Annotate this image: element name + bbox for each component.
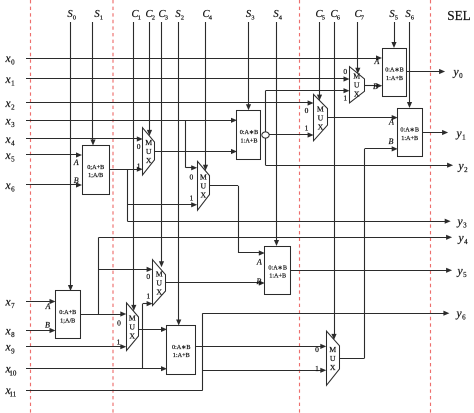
svg-text:1: 1 xyxy=(100,15,103,22)
svg-text:M: M xyxy=(353,71,360,80)
svg-text:5: 5 xyxy=(395,15,398,22)
svg-text:1;A/B: 1;A/B xyxy=(88,172,103,179)
multiplexer M2 xyxy=(198,161,210,210)
control signal label C1 xyxy=(131,9,141,22)
svg-text:5: 5 xyxy=(11,156,15,164)
svg-text:1: 1 xyxy=(146,292,150,301)
svg-text:0:A∗B: 0:A∗B xyxy=(240,129,259,136)
output label y1 xyxy=(455,128,466,142)
wire x9 to M4 input 1 xyxy=(26,344,126,349)
svg-text:1: 1 xyxy=(315,364,319,373)
input label x6 xyxy=(4,180,15,194)
multiplexer M3 xyxy=(153,260,166,306)
input label x9 xyxy=(4,342,15,356)
control line C2 (select of MUX M1) xyxy=(147,22,152,136)
output label y0 xyxy=(452,67,463,81)
control signal label S5 xyxy=(389,9,398,22)
control signal label C4 xyxy=(202,9,212,22)
input label x2 xyxy=(4,98,15,112)
ALU U3 (0:A*B / 1:A+B) xyxy=(237,111,261,160)
net U1 output: to M1 input 1, branch to M2 input 1 and output y3 xyxy=(110,167,451,224)
wire M2 output to U4 pin A xyxy=(210,186,265,256)
svg-text:B: B xyxy=(256,277,261,286)
svg-text:A: A xyxy=(373,57,379,66)
control line S1 (select of U1) xyxy=(90,22,95,146)
svg-text:1;A/B: 1;A/B xyxy=(60,317,75,324)
svg-text:7: 7 xyxy=(11,302,15,310)
wire M6 output to U7 pin A xyxy=(327,115,398,120)
svg-text:9: 9 xyxy=(11,347,15,355)
svg-text:11: 11 xyxy=(9,391,16,399)
wire x10 to U5 pin B, branch up to M3 input 1 xyxy=(26,301,167,371)
control line C7 (select of MUX M7) xyxy=(355,22,360,74)
svg-text:B: B xyxy=(45,321,50,330)
control line S4 (select of U4) xyxy=(274,22,279,246)
control line S6 (select of U7) xyxy=(407,22,412,108)
wire M4 output to U5 pin A xyxy=(138,327,167,332)
wire x11 up to output y6 with branch to M5 input 1 xyxy=(26,311,449,391)
ALU U1 (0:A+B / 1:A/B) xyxy=(73,146,110,195)
svg-text:0: 0 xyxy=(459,72,463,80)
control line C1 (select of MUX M4) xyxy=(131,22,136,311)
svg-text:M: M xyxy=(317,104,324,113)
svg-text:2: 2 xyxy=(181,15,184,22)
ALU U4 (0:A*B / 1:A+B) xyxy=(256,247,291,295)
control signal label S2 xyxy=(175,9,184,22)
ALU U2 (0:A+B / 1:A/B) xyxy=(45,291,81,339)
svg-text:0: 0 xyxy=(11,59,15,67)
svg-text:M: M xyxy=(129,313,136,322)
control signal label S0 xyxy=(67,9,76,22)
input label x1 xyxy=(4,74,15,88)
svg-text:0: 0 xyxy=(73,15,76,22)
svg-text:U: U xyxy=(129,322,135,331)
svg-text:0:A∗B: 0:A∗B xyxy=(268,264,287,271)
multiplexer M7 xyxy=(350,67,365,103)
output label y2 xyxy=(457,161,468,175)
svg-text:M: M xyxy=(329,345,336,354)
svg-text:M: M xyxy=(145,138,152,147)
wire U6 output to y0 xyxy=(407,69,445,74)
svg-text:X: X xyxy=(129,331,135,340)
svg-text:X: X xyxy=(156,287,162,296)
svg-text:U: U xyxy=(330,354,336,363)
node: U3 output bubble junction xyxy=(262,132,269,138)
svg-text:U: U xyxy=(156,278,162,287)
svg-text:2: 2 xyxy=(464,166,468,174)
svg-text:0:A∗B: 0:A∗B xyxy=(172,344,191,351)
wire x5 to U1 pin A xyxy=(26,152,82,157)
control line C5 (select of MUX M6) xyxy=(317,22,322,101)
input label x10 xyxy=(4,364,16,378)
wire x2 to M6 input 0 xyxy=(26,100,314,105)
multiplexer M5 xyxy=(327,331,340,385)
wire U4 output to y5 xyxy=(291,268,453,273)
control line C6 (select of MUX M5) xyxy=(331,22,336,340)
svg-text:1: 1 xyxy=(117,338,121,347)
wire x6 to U1 pin B xyxy=(26,182,82,187)
svg-text:2: 2 xyxy=(152,15,155,22)
svg-text:U: U xyxy=(354,80,360,89)
control signal label C3 xyxy=(158,9,168,22)
svg-text:3: 3 xyxy=(463,222,467,230)
svg-text:3: 3 xyxy=(11,121,15,129)
svg-text:X: X xyxy=(354,89,360,98)
svg-text:1:A+B: 1:A+B xyxy=(241,137,258,144)
multiplexer M4 xyxy=(127,303,139,351)
svg-text:8: 8 xyxy=(11,331,15,339)
wire M3 output to U4 pin B xyxy=(166,280,265,285)
svg-text:M: M xyxy=(200,173,207,182)
svg-text:0;A+B: 0;A+B xyxy=(87,164,104,171)
svg-text:5: 5 xyxy=(322,15,325,22)
svg-text:X: X xyxy=(146,156,152,165)
input label x0 xyxy=(4,53,15,67)
wire U7 output to y1 xyxy=(422,130,448,135)
svg-text:0: 0 xyxy=(117,318,121,327)
control line S0 (select of U2) xyxy=(68,22,73,291)
wire M1 output to U3 pin B xyxy=(155,149,237,154)
svg-text:U: U xyxy=(201,182,207,191)
control signal label C6 xyxy=(330,9,340,22)
control line S5 (select of U6) xyxy=(391,22,396,48)
svg-text:0: 0 xyxy=(146,272,150,281)
control line C3 (select of MUX M3) xyxy=(159,22,164,267)
multiplexer M6 xyxy=(314,94,328,140)
svg-text:10: 10 xyxy=(9,369,17,377)
input label x8 xyxy=(4,326,15,340)
svg-text:SEL: SEL xyxy=(447,8,470,23)
ALU U6 (0:A*B / 1:A+B) xyxy=(373,49,406,97)
svg-text:1:A+B: 1:A+B xyxy=(401,135,418,142)
section separator dashed line 4 xyxy=(430,0,432,413)
output label y4 xyxy=(457,233,468,247)
svg-text:4: 4 xyxy=(464,238,468,246)
wire M7 output to U6 pin B xyxy=(364,83,382,88)
svg-text:1:A+B: 1:A+B xyxy=(269,273,286,280)
svg-text:1: 1 xyxy=(462,134,466,142)
section separator dashed line 2 xyxy=(112,0,114,413)
wire x7 to U2 pin A xyxy=(26,299,56,304)
wire U5 output to M5 input 0 xyxy=(196,344,327,349)
svg-text:A: A xyxy=(73,158,79,167)
wire M5 output up to U7 pin B xyxy=(339,146,398,358)
svg-text:6: 6 xyxy=(11,186,15,194)
ALU U7 (0:A*B / 1:A+B) xyxy=(388,109,422,157)
svg-text:B: B xyxy=(373,82,378,91)
input label x5 xyxy=(4,150,15,164)
svg-text:1: 1 xyxy=(343,94,347,103)
input label x11 xyxy=(4,385,16,399)
svg-text:B: B xyxy=(74,176,79,185)
svg-text:1: 1 xyxy=(138,15,141,22)
svg-text:3: 3 xyxy=(251,15,254,22)
svg-text:0: 0 xyxy=(305,106,309,115)
svg-text:A: A xyxy=(45,302,51,311)
control signal label C5 xyxy=(315,9,325,22)
svg-text:0:A+B: 0:A+B xyxy=(59,309,76,316)
wire x4 to M1 input 0 xyxy=(26,136,143,141)
multiplexer M1 xyxy=(143,128,155,175)
svg-text:0: 0 xyxy=(137,142,141,151)
svg-text:A: A xyxy=(388,118,394,127)
svg-text:X: X xyxy=(201,191,207,200)
svg-text:4: 4 xyxy=(11,140,15,148)
control line S3 (select of U3) xyxy=(246,22,251,110)
svg-text:0: 0 xyxy=(315,345,319,354)
svg-text:6: 6 xyxy=(462,314,466,322)
control signal label C7 xyxy=(354,9,364,22)
wire x1 to M7 input 0 xyxy=(26,76,350,81)
svg-text:3: 3 xyxy=(165,15,168,22)
svg-text:B: B xyxy=(389,137,394,146)
svg-text:1: 1 xyxy=(11,80,15,88)
control signal label S4 xyxy=(273,9,282,22)
svg-text:X: X xyxy=(330,363,336,372)
section separator dashed line 3 xyxy=(299,0,301,413)
ALU U5 (0:A*B / 1:A+B) xyxy=(167,326,196,375)
control signal label S1 xyxy=(94,9,103,22)
svg-text:0: 0 xyxy=(343,67,347,76)
section separator dashed line 1 xyxy=(30,0,32,413)
control signal label S6 xyxy=(405,9,414,22)
svg-text:A: A xyxy=(256,258,262,267)
input label x3 xyxy=(4,115,15,129)
net U2 output: to M4 input 0, branch to M3 input 0 and output y4 xyxy=(80,235,452,317)
output label y3 xyxy=(456,216,467,230)
wire x0 to U6 pin A xyxy=(26,55,382,60)
svg-text:1:A+B: 1:A+B xyxy=(173,352,190,359)
output label y5 xyxy=(456,266,467,280)
control signal label S3 xyxy=(246,9,255,22)
input label x7 xyxy=(4,297,15,311)
svg-text:M: M xyxy=(156,269,163,278)
net U3 output: to M6 input 1, up to M7 input 1, down to output y2 xyxy=(266,88,454,168)
wire x3 to U3 pin A, branch down to M2 input 0 xyxy=(26,118,237,171)
svg-text:0: 0 xyxy=(190,173,194,182)
svg-text:0:A∗B: 0:A∗B xyxy=(400,127,419,134)
output label y6 xyxy=(455,308,466,322)
control line S2 (select of U5) xyxy=(176,22,181,326)
control signal label C2 xyxy=(145,9,155,22)
svg-text:U: U xyxy=(318,113,324,122)
svg-text:2: 2 xyxy=(11,104,15,112)
svg-text:1:A+B: 1:A+B xyxy=(386,75,403,82)
svg-text:5: 5 xyxy=(463,271,467,279)
svg-text:1: 1 xyxy=(305,124,309,133)
input label x4 xyxy=(4,134,15,148)
svg-text:U: U xyxy=(146,147,152,156)
control line C4 (select of MUX M2) xyxy=(203,22,208,171)
wire x8 to U2 pin B xyxy=(26,328,56,333)
svg-text:0:A∗B: 0:A∗B xyxy=(385,67,404,74)
svg-text:1: 1 xyxy=(190,193,194,202)
svg-text:1: 1 xyxy=(137,162,141,171)
svg-text:X: X xyxy=(318,122,324,131)
